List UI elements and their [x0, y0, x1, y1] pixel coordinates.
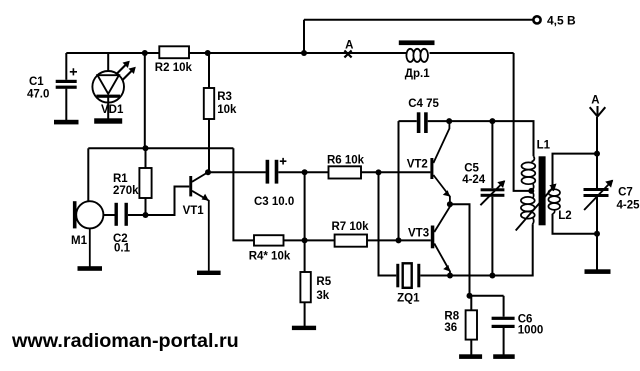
- junction C4 line to VT3 base: [396, 237, 402, 243]
- inductor L2: [548, 186, 560, 215]
- junction C5 top: [489, 118, 495, 124]
- wire C3 line left: [208, 171, 266, 173]
- svg-text:R7 10k: R7 10k: [332, 221, 370, 233]
- svg-text:10k: 10k: [217, 104, 237, 116]
- junction rail to 4.5V riser: [301, 50, 307, 56]
- svg-text:R5: R5: [316, 276, 331, 288]
- LED VD1: [92, 61, 135, 103]
- ground bar C7: [585, 269, 611, 274]
- svg-text:R4* 10k: R4* 10k: [249, 251, 291, 263]
- svg-text:A: A: [591, 95, 599, 107]
- wire R1 lower stub: [145, 198, 147, 215]
- wire R3 top stub: [208, 53, 210, 88]
- wire VD1 top: [107, 53, 109, 71]
- wire mic supply horizontal y148: [88, 147, 233, 149]
- junction C4/VT2 collector tank node: [446, 118, 452, 124]
- junction VT3 emitter on ZQ1 rail: [447, 273, 453, 279]
- junction C3/R6 node: [302, 169, 308, 175]
- wire M1 to C2: [103, 214, 114, 216]
- svg-text:36: 36: [444, 322, 457, 334]
- wire bias link verticals x304: [304, 172, 306, 240]
- wire R5 bottom stub: [304, 302, 306, 326]
- svg-text:C3 10.0: C3 10.0: [254, 196, 294, 208]
- svg-text:4,5 В: 4,5 В: [547, 14, 576, 28]
- inductor L1: [516, 156, 557, 230]
- wire R8 top stub: [470, 296, 472, 310]
- junction R8/C6 node: [467, 293, 473, 299]
- microphone M1: [73, 201, 104, 266]
- wire C4 right tank line: [428, 121, 534, 156]
- svg-text:C4 75: C4 75: [408, 98, 439, 110]
- svg-text:4-24: 4-24: [462, 174, 486, 186]
- svg-text:M1: M1: [71, 235, 88, 247]
- svg-text:R1: R1: [113, 173, 128, 185]
- svg-text:C5: C5: [464, 163, 479, 175]
- capacitor C7 variable: [584, 180, 613, 210]
- junction R6/VT2 base/ZQ1 branch: [376, 169, 382, 175]
- wire C2 to VT1 base: [128, 187, 189, 216]
- resistor R8: [466, 310, 477, 339]
- wire C3 to R6: [278, 171, 328, 173]
- ground bar VT1: [197, 271, 221, 275]
- transistor VT1: [189, 173, 209, 271]
- wire R3 bottom to VT1 collector node: [208, 119, 210, 172]
- capacitor C5 variable: [480, 181, 504, 205]
- wire choke to L1 tap: [514, 53, 530, 191]
- svg-text:www.radioman-portal.ru: www.radioman-portal.ru: [11, 330, 239, 352]
- svg-text:R6 10k: R6 10k: [327, 155, 365, 167]
- junction R2/R3: [205, 50, 211, 56]
- svg-text:ZQ1: ZQ1: [397, 293, 420, 305]
- resistor R5: [300, 272, 310, 302]
- resistor R6: [329, 166, 362, 178]
- wire VD1 bottom: [107, 98, 109, 119]
- capacitor C3: [266, 158, 287, 184]
- wire C1 top: [65, 53, 67, 80]
- junction rail to R1/VD1 branch: [142, 50, 148, 56]
- resistor R4: [254, 235, 284, 245]
- svg-text:VT1: VT1: [183, 205, 205, 217]
- svg-text:Др.1: Др.1: [405, 68, 430, 80]
- ground bar M1: [78, 266, 103, 271]
- svg-text:R8: R8: [444, 311, 459, 323]
- svg-text:L1: L1: [537, 140, 551, 152]
- ground bar C6: [493, 354, 515, 359]
- svg-text:47.0: 47.0: [27, 89, 49, 101]
- crystal ZQ1: [396, 263, 420, 288]
- wire C5 bottom stub: [491, 197, 493, 276]
- wire R4 to R7: [284, 239, 335, 241]
- svg-text:VD1: VD1: [101, 104, 124, 116]
- svg-text:270k: 270k: [113, 185, 139, 197]
- capacitor C2: [115, 203, 128, 226]
- svg-text:VT2: VT2: [407, 159, 428, 171]
- choke Dr1: [399, 40, 435, 62]
- ground bar VD1: [94, 118, 122, 123]
- wire C6 top stub: [503, 296, 505, 317]
- transistor VT3: [431, 204, 450, 275]
- svg-text:1000: 1000: [518, 325, 544, 337]
- transformer core: [539, 156, 546, 225]
- resistor R3: [204, 88, 214, 119]
- ground bar R8: [459, 354, 482, 359]
- svg-text:3k: 3k: [316, 290, 329, 302]
- wire VT2 node down to ZQ1 rail: [379, 172, 397, 275]
- ground bar C1: [54, 120, 79, 125]
- svg-text:0.1: 0.1: [114, 243, 131, 255]
- junction antenna/L2 top/C7: [594, 151, 600, 157]
- wire main supply rail y53: [66, 52, 513, 54]
- transistor VT2: [430, 121, 450, 204]
- ground bar R5: [292, 326, 316, 330]
- svg-text:R2 10k: R2 10k: [155, 62, 193, 74]
- wire C1 bottom: [65, 89, 67, 120]
- svg-text:C7: C7: [618, 187, 633, 199]
- wire R1 upper stub: [145, 148, 147, 168]
- wire L2 top to antenna: [553, 154, 598, 186]
- resistor R1: [139, 168, 151, 198]
- wire C5 top stub: [491, 121, 493, 188]
- capacitor C6: [492, 317, 515, 328]
- resistor R2: [159, 46, 189, 58]
- junction L1 tap: [528, 188, 534, 194]
- junction VT2 emitter / VT3 collector: [447, 201, 453, 207]
- svg-text:A: A: [345, 40, 353, 52]
- wire R7 to VT3 base: [367, 239, 431, 241]
- wire R6 to VT2 base: [361, 171, 430, 173]
- power terminal 4.5V: [533, 16, 540, 23]
- svg-text:VT3: VT3: [408, 228, 429, 240]
- svg-text:4-25: 4-25: [617, 200, 640, 212]
- junction R1 top: [143, 145, 149, 151]
- capacitor C1: [56, 68, 77, 89]
- wire top 4.5V rail: [304, 19, 533, 21]
- wire C6 bottom stub: [503, 328, 505, 355]
- junction R4/R7/R5 node: [302, 237, 308, 243]
- wire M1 top drop: [87, 148, 89, 202]
- wire R8 bottom stub: [470, 340, 472, 355]
- junction VT1 collector / R3 / C3: [205, 169, 211, 175]
- svg-text:L2: L2: [558, 210, 571, 222]
- wire L2 bottom to C7: [553, 214, 598, 234]
- junction C5 bottom on ZQ1 rail: [489, 273, 495, 279]
- wire VT2/VT3 node to R8 drop: [450, 204, 470, 295]
- antenna A top right: [590, 106, 606, 117]
- wire C4 left: [399, 120, 417, 122]
- resistor R7: [335, 235, 367, 247]
- wire R8 C6 node: [470, 295, 504, 297]
- wire rail to R1 vertical: [144, 53, 146, 148]
- wire supply drop x233 to R4: [233, 148, 254, 240]
- svg-text:C1: C1: [29, 76, 44, 88]
- svg-text:R3: R3: [217, 91, 232, 103]
- wires-group: [66, 20, 597, 355]
- wire C4 feedback vertical: [398, 121, 400, 240]
- junction L2 bottom/C7 bottom: [594, 231, 600, 237]
- antenna tap mark X on rail: [344, 51, 351, 58]
- wire antenna drop to C7: [596, 117, 598, 188]
- wire vertical to 4.5V rail: [303, 20, 305, 54]
- capacitor C4: [417, 112, 428, 133]
- junction C2/R1/VT1 base: [143, 212, 149, 218]
- wire ZQ1 rail: [420, 224, 532, 275]
- wire C7 bottom to ground: [596, 197, 598, 270]
- wire R5 top stub: [304, 241, 306, 273]
